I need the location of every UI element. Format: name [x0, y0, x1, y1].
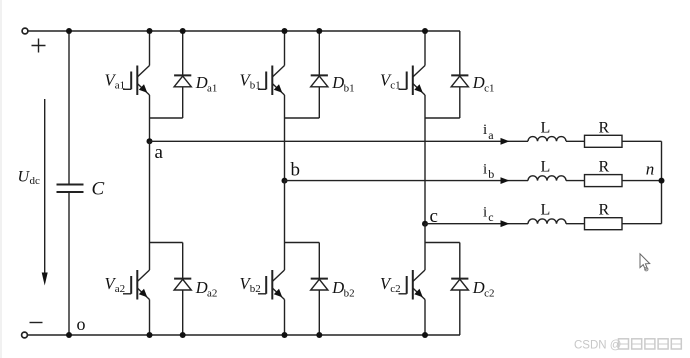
svg-text:b1: b1 — [344, 82, 355, 94]
wire IGBT c emitter to bottom rail — [424, 300, 426, 336]
node b — [282, 178, 288, 184]
capacitor C — [57, 31, 84, 335]
svg-text:a2: a2 — [207, 288, 217, 300]
diode Db2 — [311, 243, 328, 336]
diode Da2 — [174, 243, 191, 336]
svg-text:o: o — [77, 314, 86, 334]
watermark CSDN — [574, 339, 681, 352]
svg-text:b1: b1 — [250, 79, 261, 91]
transistor Va2 — [123, 270, 150, 300]
svg-text:R: R — [599, 159, 610, 176]
diode Dc2 — [451, 243, 468, 336]
node c — [422, 221, 428, 227]
svg-text:b2: b2 — [344, 288, 355, 300]
transistor Vc2 — [399, 270, 426, 300]
svg-text:D: D — [331, 73, 344, 92]
transistor Vb2 — [258, 270, 285, 300]
label Vc2 — [380, 274, 401, 295]
label Vc1 — [380, 70, 401, 91]
node n — [659, 178, 665, 184]
wire IGBT b node to lower — [284, 181, 286, 270]
svg-text:R: R — [599, 119, 610, 136]
inductor L (phase a) — [528, 137, 566, 142]
junction bottom rail diode a — [180, 332, 186, 338]
node a — [147, 138, 153, 144]
terminal + (top left) — [22, 28, 28, 34]
wire IGBT b emitter to bottom rail — [284, 300, 286, 336]
svg-text:L: L — [541, 159, 551, 176]
wire IGBT a top — [149, 31, 151, 66]
svg-text:L: L — [541, 119, 551, 136]
svg-text:n: n — [646, 160, 655, 179]
wire IGBT a emitter to bottom rail — [149, 300, 151, 336]
svg-text:L: L — [541, 202, 551, 219]
wire IGBT c node to lower — [424, 224, 426, 270]
svg-text:b: b — [488, 167, 494, 181]
label Db1 — [331, 73, 354, 94]
svg-text:dc: dc — [30, 175, 41, 187]
diode Dc1 — [451, 31, 468, 118]
wire jog diode a lower — [150, 242, 183, 244]
junction bottom rail IGBT a — [147, 332, 153, 338]
wire inductor to resistor (phase a) — [566, 140, 585, 142]
wire phase c rail — [425, 223, 528, 225]
wire IGBT b emitter to node b — [284, 95, 286, 181]
wire jog diode b lower — [285, 242, 320, 244]
junction top rail diode a — [180, 28, 186, 34]
wire resistor to n (phase b) — [622, 180, 662, 182]
svg-text:a: a — [155, 142, 164, 163]
label Va1 — [105, 70, 126, 91]
junction top rail diode b — [316, 28, 322, 34]
svg-text:a: a — [488, 128, 494, 142]
svg-text:c: c — [488, 210, 493, 224]
wire phase b rail — [285, 180, 529, 182]
label Db2 — [331, 278, 354, 299]
wire IGBT c emitter to node c — [424, 95, 426, 224]
label Da1 — [195, 73, 218, 94]
label - — [30, 322, 43, 324]
svg-text:D: D — [472, 278, 485, 297]
label Va2 — [105, 274, 126, 295]
wire jog diode c lower — [425, 242, 460, 244]
wire jog diode b upper — [285, 117, 320, 119]
resistor R (phase c) — [585, 218, 623, 230]
label Dc2 — [472, 278, 495, 299]
resistor R (phase a) — [585, 135, 623, 147]
wire inductor to resistor (phase b) — [566, 180, 585, 182]
wire neutral vertical — [661, 141, 663, 223]
svg-text:a1: a1 — [115, 79, 125, 91]
wire IGBT a node to lower — [149, 141, 151, 270]
label Da2 — [195, 278, 218, 299]
svg-text:i: i — [483, 122, 487, 138]
svg-text:D: D — [195, 278, 208, 297]
svg-text:c1: c1 — [484, 82, 494, 94]
label Dc1 — [472, 73, 495, 94]
svg-text:a2: a2 — [115, 283, 125, 295]
junction top rail IGBT a — [147, 28, 153, 34]
label Udc — [18, 168, 41, 187]
diode Da1 — [174, 31, 191, 118]
wire resistor to n (phase a) — [622, 140, 662, 142]
svg-text:R: R — [599, 202, 610, 219]
transistor Vb1 — [258, 66, 285, 96]
label ia — [483, 122, 494, 142]
junction cap bottom — [66, 332, 72, 338]
label Vb1 — [240, 70, 261, 91]
svg-text:c2: c2 — [390, 283, 400, 295]
current arrow ib — [501, 177, 510, 184]
inductor L (phase b) — [528, 176, 566, 181]
mouse cursor — [640, 254, 650, 271]
svg-text:D: D — [472, 73, 485, 92]
terminal - (bottom left) — [22, 332, 28, 338]
source Udc arrow — [42, 99, 48, 286]
junction bottom rail IGBT b — [282, 332, 288, 338]
left edge band — [0, 0, 2, 358]
wire jog diode a upper — [150, 117, 183, 119]
transistor Vc1 — [399, 66, 426, 96]
svg-text:b: b — [291, 160, 301, 181]
wire jog diode c upper — [425, 117, 460, 119]
label ib — [483, 161, 494, 181]
diode Db1 — [311, 31, 328, 118]
svg-text:CSDN @: CSDN @ — [574, 339, 621, 351]
svg-text:b2: b2 — [250, 283, 261, 295]
wire IGBT c top — [424, 31, 426, 66]
junction top rail IGBT b — [282, 28, 288, 34]
svg-text:i: i — [483, 161, 487, 177]
svg-text:D: D — [331, 278, 344, 297]
wire IGBT a emitter to node a — [149, 95, 151, 141]
wire resistor to n (phase c) — [622, 223, 662, 225]
transistor Va1 — [123, 66, 150, 96]
junction top rail IGBT c — [422, 28, 428, 34]
current arrow ia — [501, 138, 510, 145]
wire bottom rail — [28, 334, 461, 336]
svg-text:a1: a1 — [207, 82, 217, 94]
svg-text:i: i — [483, 204, 487, 220]
label ic — [483, 204, 494, 224]
wire top rail — [28, 30, 460, 32]
junction bottom rail diode b — [316, 332, 322, 338]
wire phase a rail — [150, 140, 529, 142]
junction cap top — [66, 28, 72, 34]
label + — [32, 39, 46, 53]
wire IGBT b top — [284, 31, 286, 66]
svg-text:c1: c1 — [390, 79, 400, 91]
current arrow ic — [501, 220, 510, 227]
svg-text:c2: c2 — [484, 288, 494, 300]
resistor R (phase b) — [585, 175, 623, 187]
svg-text:D: D — [195, 73, 208, 92]
junction bottom rail IGBT c — [422, 332, 428, 338]
inductor L (phase c) — [528, 219, 566, 224]
svg-text:C: C — [92, 179, 105, 200]
label Vb2 — [240, 274, 261, 295]
wire inductor to resistor (phase c) — [566, 223, 585, 225]
